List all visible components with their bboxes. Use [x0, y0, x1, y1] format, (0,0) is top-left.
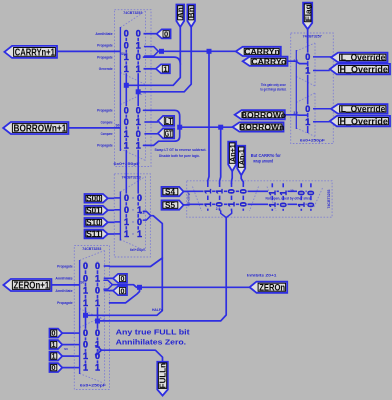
svg-text:BORROWn+1: BORROWn+1: [14, 124, 67, 135]
svg-text:3.9: 3.9: [293, 111, 298, 115]
constant 0 (zero row10): [113, 286, 127, 295]
pin output BORROWn: [233, 122, 284, 131]
wire CARRYn+1 to U1 select: [57, 50, 121, 52]
svg-text:1: 1: [215, 189, 225, 194]
svg-text:0: 0: [137, 217, 142, 227]
wire S00 to U2 row0: [108, 197, 115, 199]
svg-text:S11: S11: [86, 229, 101, 239]
svg-text:0: 0: [296, 190, 306, 195]
svg-text:0: 0: [136, 52, 141, 62]
svg-text:2.9: 2.9: [216, 207, 221, 211]
svg-text:to get things started.: to get things started.: [260, 88, 286, 92]
svg-text:0: 0: [51, 363, 55, 372]
svg-text:0: 0: [306, 190, 316, 195]
U4 column 3 line: [242, 183, 244, 187]
wire An-1 to U4 column4: [241, 175, 243, 183]
svg-text:An-1: An-1: [237, 149, 246, 165]
svg-text:L_Override: L_Override: [341, 53, 386, 63]
pin output CARRYo: [243, 57, 288, 66]
svg-text:BORROWo: BORROWo: [241, 110, 286, 120]
U4 column 4 line: [271, 183, 273, 187]
tunnel GT: [158, 128, 174, 138]
U2 row 3 line: [114, 233, 120, 235]
U3 select column line S0: [97, 261, 99, 263]
U4 column 0 line: [207, 183, 209, 187]
svg-text:1: 1: [51, 352, 55, 361]
svg-text:1: 1: [83, 286, 88, 296]
svg-text:Annihilate: Annihilate: [95, 32, 112, 36]
U1 row 10 line section2: [144, 133, 158, 135]
svg-text:Any true FULL bit: Any true FULL bit: [116, 327, 191, 336]
U3 FULL row 0 line: [74, 332, 79, 334]
svg-text:0: 0: [136, 29, 141, 39]
U4 column 5 line: [282, 183, 284, 187]
svg-text:0: 0: [121, 274, 125, 283]
junction borrow funnel: [177, 125, 182, 130]
svg-text:S0: S0: [116, 124, 120, 128]
wire S01 to U2 row1: [108, 209, 115, 211]
svg-text:0: 0: [121, 286, 125, 295]
wire BORROWo to U5 select: [285, 114, 308, 116]
wire S4 to U4: [184, 190, 188, 192]
U5 section1 mux trapezoid: [296, 43, 315, 51]
svg-text:CARRYo: CARRYo: [251, 56, 286, 66]
svg-text:L_Override: L_Override: [341, 104, 386, 114]
constant 0 (zero row01): [113, 274, 127, 283]
svg-text:Swap LT GT to reverse subtract: Swap LT GT to reverse subtract.: [155, 147, 207, 152]
svg-text:Annihilates Zero.: Annihilates Zero.: [116, 337, 187, 346]
U3 select bus line: [79, 260, 81, 374]
U1 row 01 line: [143, 44, 145, 46]
wire BORROW output net: [180, 126, 233, 128]
pin input An-1: [237, 146, 245, 175]
svg-text:0: 0: [124, 105, 129, 115]
svg-text:Annihilate: Annihilate: [55, 277, 72, 281]
svg-text:Generate: Generate: [99, 67, 113, 71]
U3 row 01 line: [104, 277, 113, 279]
wire BORROWn+1 to U1 select: [68, 127, 120, 129]
wire S5 to U4: [184, 204, 188, 206]
svg-text:1: 1: [227, 202, 237, 207]
U2 mux trapezoid: [120, 177, 145, 192]
svg-text:6x0+250pF: 6x0+250pF: [80, 383, 107, 387]
svg-text:An+1: An+1: [228, 144, 237, 162]
svg-text:2.9: 2.9: [140, 211, 145, 215]
svg-text:1: 1: [83, 298, 88, 308]
svg-text:GT: GT: [165, 128, 173, 138]
svg-text:0: 0: [95, 328, 100, 338]
pin input S10: [85, 218, 108, 227]
pin constant pin 1 (full row1): [50, 340, 63, 349]
svg-text:1: 1: [278, 190, 288, 195]
wire U4 output down to U3 column2: [98, 218, 227, 321]
svg-text:1: 1: [95, 298, 100, 308]
svg-text:1: 1: [136, 117, 141, 127]
svg-text:Propagate: Propagate: [57, 264, 73, 268]
U5 row 0 line: [313, 56, 331, 58]
junction U4 out to U3 column2: [95, 319, 100, 324]
U5 row 1 line section2: [313, 121, 330, 123]
U4 column 2 line: [231, 183, 233, 187]
svg-text:0: 0: [164, 30, 168, 39]
svg-text:0: 0: [306, 202, 316, 207]
pin constant pin 1 (full row2): [50, 352, 63, 361]
chip U3 74CBT3253 dashed outline (ZERO/FULL dual mux): [74, 246, 109, 390]
U4 column 7 line: [310, 183, 312, 187]
svg-text:HALFn: HALFn: [152, 308, 163, 312]
U4 select bar S1: [187, 190, 204, 192]
U3 select column line S1: [85, 261, 87, 263]
svg-text:Flag: Flag: [303, 4, 312, 21]
svg-text:1: 1: [203, 202, 213, 207]
svg-text:Propagate: Propagate: [97, 144, 113, 148]
svg-text:0: 0: [238, 189, 248, 194]
U3 FULL row 2 line: [74, 355, 79, 357]
svg-text:0: 0: [124, 40, 129, 50]
svg-text:1: 1: [124, 64, 129, 74]
wire FULLn output: [101, 350, 162, 362]
pin output FULLn: [157, 362, 168, 396]
svg-text:0: 0: [215, 202, 225, 207]
wire S11 to U2 row3: [108, 233, 115, 235]
svg-text:Inhibits Z0+1: Inhibits Z0+1: [247, 272, 277, 277]
svg-text:1: 1: [305, 117, 310, 127]
svg-text:1: 1: [51, 340, 55, 349]
svg-text:1: 1: [203, 189, 213, 194]
svg-text:0: 0: [278, 202, 288, 207]
pin input Flag: [303, 3, 312, 30]
wire U1 row00 sec2 wrap to borrow junction: [144, 110, 180, 124]
pin output BORROWo: [235, 110, 285, 119]
svg-text:1: 1: [137, 229, 142, 239]
wire U3 row01 to constant 0: [110, 277, 114, 279]
U2 select bus line: [119, 192, 121, 241]
svg-text:1: 1: [305, 66, 310, 76]
pin constant pin 0 (full row0): [50, 329, 63, 338]
pin input H_Override (borrow): [330, 116, 390, 126]
svg-text:wrap around: wrap around: [252, 158, 273, 163]
svg-text:Not open, used by other slice.: Not open, used by other slice.: [266, 197, 312, 201]
wire S10 to U2 row2: [108, 221, 115, 223]
svg-text:1: 1: [95, 273, 100, 283]
wire Flag to U5 column: [307, 29, 309, 43]
U4 section2 mux trapezoid: [267, 187, 276, 212]
svg-text:1: 1: [124, 229, 129, 239]
U5 section2 mux trapezoid: [296, 93, 315, 103]
pin input An: [176, 5, 184, 28]
pin input L_Override (borrow): [331, 104, 388, 114]
tunnel LT: [158, 116, 174, 126]
svg-text:CARRYn+1: CARRYn+1: [15, 48, 55, 59]
svg-text:Compare: Compare: [101, 132, 113, 136]
svg-text:S0: S0: [64, 347, 68, 351]
pin input CARRYn+1: [4, 46, 57, 58]
pin input An+1: [228, 142, 236, 172]
wire FULL input pin1: [62, 344, 74, 346]
U4 select bar S0: [187, 203, 204, 205]
svg-text:0: 0: [83, 340, 88, 350]
U3 row 00 line: [104, 265, 110, 267]
junction carry tap: [207, 49, 212, 54]
U5 row 1 line: [313, 70, 330, 72]
svg-text:6x0+250pF: 6x0+250pF: [300, 139, 326, 143]
pin output CARRYn: [236, 47, 281, 56]
funnel U3 ZERO output: [104, 280, 112, 289]
U5 row 0 line section2: [313, 108, 331, 110]
U3 section2 mux trapezoid: [80, 316, 105, 328]
svg-text:Disable both for pure logic.: Disable both for pure logic.: [159, 153, 200, 158]
wire U1 row11 to constant 1: [144, 68, 156, 70]
wire U3 row11 jog to zero junction: [110, 287, 140, 303]
svg-text:0: 0: [51, 329, 55, 338]
wire borrow junction wrap to row11: [144, 130, 180, 146]
svg-text:0: 0: [238, 202, 248, 207]
svg-text:1: 1: [267, 202, 277, 207]
svg-text:But CARRYo for: But CARRYo for: [251, 153, 281, 158]
wire U1 row00 to constant 0: [144, 33, 157, 35]
svg-text:S10: S10: [86, 217, 101, 227]
chip U5 74CBT3257 dashed outline (override mux): [291, 33, 334, 144]
svg-text:0: 0: [95, 261, 100, 271]
svg-text:S0: S0: [121, 52, 125, 56]
svg-text:0: 0: [124, 29, 129, 39]
U1/U2 select column line S0: [137, 38, 139, 41]
svg-text:Compare: Compare: [101, 120, 113, 124]
svg-text:0: 0: [95, 351, 100, 361]
svg-text:S0: S0: [98, 348, 102, 352]
constant 0 (carry annihilate): [157, 29, 171, 38]
svg-text:BORROWn: BORROWn: [239, 122, 284, 132]
chip U4 74CBT3253 dashed outline (rotated A-select mux): [187, 181, 332, 217]
svg-text:0: 0: [124, 205, 129, 215]
U1 row 01 line section2: [144, 121, 158, 123]
pin input ZEROn+1: [3, 279, 51, 291]
svg-text:S00: S00: [86, 193, 101, 203]
chip U1 74CBT3253 dashed outline (CARRY/BORROW dual mux): [115, 10, 152, 167]
U1 select bus line: [119, 27, 121, 151]
wire CARRYo to U5 select: [288, 61, 308, 63]
svg-text:0: 0: [136, 105, 141, 115]
wire HALFn net U2 output down to U3 column1: [86, 216, 163, 316]
svg-text:1: 1: [267, 190, 277, 195]
U2 row 1 line: [114, 209, 120, 211]
svg-text:Propagate: Propagate: [97, 55, 113, 59]
wire ZEROn+1 to U3 select: [51, 284, 79, 286]
U1 section2 mux trapezoid: [120, 93, 145, 105]
svg-text:74CBT3253: 74CBT3253: [82, 247, 101, 251]
svg-text:Propagate: Propagate: [97, 44, 113, 48]
U2 row 0 line: [114, 197, 120, 199]
junction carry funnel: [159, 49, 164, 54]
svg-text:1: 1: [83, 363, 88, 373]
wire An+1 to U4 column3: [231, 171, 234, 183]
U5 select bus line: [295, 50, 297, 129]
svg-text:FULLn: FULLn: [158, 363, 167, 388]
wire An down into U1: [126, 27, 180, 86]
svg-text:1: 1: [124, 141, 129, 151]
pin input H_Override (carry): [330, 64, 390, 74]
svg-text:Annihilate: Annihilate: [55, 289, 72, 293]
svg-text:Propagate: Propagate: [57, 301, 73, 305]
U4 column 6 line: [300, 183, 302, 187]
U5 data column line: [307, 42, 309, 53]
wire CARRY down to U4 column1: [208, 51, 209, 183]
wire FULL input pin2: [62, 355, 74, 357]
svg-text:H_Override: H_Override: [340, 116, 388, 126]
funnel U3 FULL output: [96, 346, 102, 355]
junction HALFn to U3 column1: [83, 313, 88, 318]
svg-text:Propagate: Propagate: [97, 109, 113, 113]
pin input S11: [85, 230, 108, 239]
pin input S00: [85, 194, 108, 203]
svg-text:3.9: 3.9: [293, 59, 298, 63]
funnel U4 output (down): [221, 211, 232, 218]
svg-text:0: 0: [124, 117, 129, 127]
svg-text:S4: S4: [165, 188, 175, 197]
svg-text:LT: LT: [165, 116, 173, 126]
U3 section1 mux trapezoid: [80, 251, 105, 261]
svg-text:An: An: [176, 7, 185, 18]
U1/U2 select column line S1: [125, 38, 127, 41]
svg-text:0: 0: [83, 261, 88, 271]
pin input S4: [162, 187, 184, 196]
svg-text:1: 1: [124, 217, 129, 227]
svg-text:1: 1: [83, 351, 88, 361]
wire BORROW down to U4 column2: [220, 130, 221, 184]
svg-text:74CBT3257: 74CBT3257: [303, 34, 322, 38]
svg-text:This gate only once: This gate only once: [261, 83, 286, 87]
svg-text:0: 0: [305, 104, 310, 114]
junction An to S1 column: [124, 83, 129, 88]
svg-text:0: 0: [95, 286, 100, 296]
U2 row 2 line: [114, 221, 120, 223]
svg-text:0: 0: [124, 193, 129, 203]
junction borrow tap: [218, 125, 223, 130]
funnel U2 output: [143, 211, 151, 220]
svg-text:0: 0: [83, 328, 88, 338]
wire FULL input pin3: [62, 367, 74, 369]
chip U2 74CBT3253 dashed outline (S-code mux): [114, 174, 150, 257]
svg-text:ZEROn+1: ZEROn+1: [14, 281, 50, 292]
svg-text:0: 0: [227, 189, 237, 194]
U4 section1 mux trapezoid: [193, 187, 202, 212]
wire CARRY output net: [158, 50, 236, 52]
pin input Bn: [187, 5, 195, 28]
svg-text:1: 1: [95, 363, 100, 373]
svg-text:0: 0: [305, 52, 310, 62]
svg-text:0: 0: [137, 193, 142, 203]
wire FULL input pin0: [62, 332, 74, 334]
pin input S5: [162, 200, 184, 209]
svg-text:1: 1: [124, 129, 129, 139]
svg-text:S0: S0: [80, 281, 84, 285]
junction Bn to S0 column: [136, 89, 141, 94]
svg-text:74CBT3253: 74CBT3253: [327, 189, 331, 208]
svg-text:1: 1: [136, 40, 141, 50]
svg-text:S01: S01: [86, 205, 101, 215]
U3 FULL row 3 line: [74, 367, 79, 369]
svg-text:0: 0: [136, 129, 141, 139]
pin input S01: [85, 206, 108, 215]
wire Bn down into U1: [138, 27, 191, 92]
pin constant pin 0 (full row3): [50, 363, 63, 372]
junction zero output: [137, 285, 142, 290]
svg-text:1: 1: [136, 141, 141, 151]
svg-text:S5: S5: [165, 201, 175, 210]
pin input L_Override (carry): [331, 53, 388, 63]
U1 section1 mux trapezoid: [120, 11, 145, 28]
pin input BORROWn+1: [3, 122, 68, 134]
U3 row 10 line: [104, 290, 113, 292]
svg-text:1: 1: [136, 64, 141, 74]
constant 1 (carry generate): [156, 64, 170, 73]
svg-text:CARRYn: CARRYn: [244, 46, 280, 56]
svg-text:10: 10: [290, 188, 294, 192]
U3 FULL row 1 line: [74, 344, 79, 346]
svg-text:1: 1: [296, 202, 306, 207]
wire U1 row10 join An: [144, 57, 181, 64]
svg-text:6x0+250pF: 6x0+250pF: [130, 248, 145, 252]
svg-text:H_Override: H_Override: [340, 64, 388, 74]
svg-text:Bn: Bn: [187, 7, 196, 18]
funnel U1 CARRY output: [145, 47, 159, 56]
wire U3 row10 to constant 0: [110, 290, 114, 292]
pin output ZEROn: [250, 282, 288, 293]
wire U2 output branch into U3 row00: [110, 258, 163, 267]
svg-text:ZEROn: ZEROn: [259, 282, 285, 293]
U4 column 1 line: [219, 183, 221, 187]
wire ZERO output net: [112, 285, 249, 288]
